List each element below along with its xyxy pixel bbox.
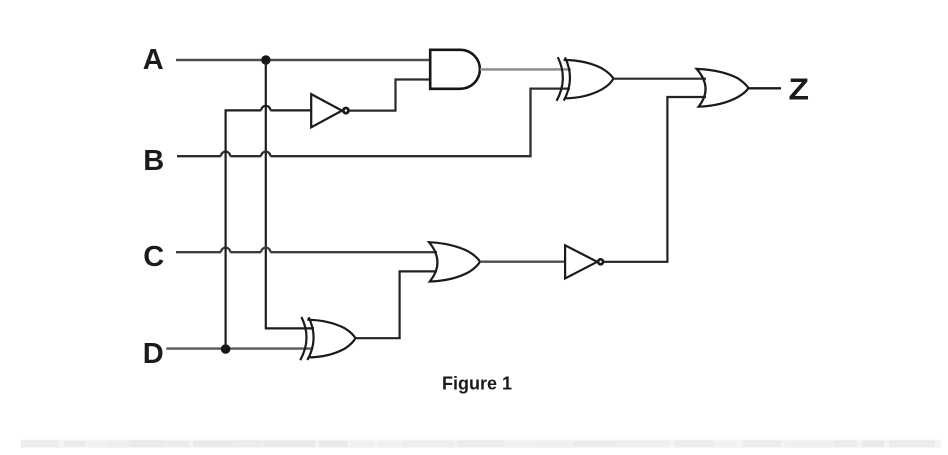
svg-text:Z: Z bbox=[789, 72, 810, 107]
svg-text:C: C bbox=[143, 241, 164, 273]
inverter NOT2 (C level) triangle bbox=[565, 245, 597, 278]
wire hop over x=265.8 on B line bbox=[261, 152, 270, 157]
svg-text:D: D bbox=[143, 338, 164, 370]
wire NOT2 output right then up to OR3 lower input bbox=[604, 97, 706, 262]
XOR gate XOR2 body bbox=[307, 317, 313, 360]
wire XOR2 output up to OR2 lower input bbox=[356, 271, 438, 338]
wire D input to XOR2 lower input bbox=[166, 347, 313, 349]
inverter NOT1 bubble bbox=[343, 108, 348, 113]
wire A-branch vertical to XOR2 upper input bbox=[266, 60, 314, 328]
wire hop over x=225.6 on C line bbox=[221, 248, 230, 253]
bottom faint scan band bbox=[21, 440, 941, 448]
wire hop over x=225.6 on B line bbox=[221, 152, 230, 157]
svg-text:B: B bbox=[143, 145, 164, 177]
node A junction dot bbox=[261, 55, 270, 64]
node D junction dot bbox=[221, 344, 231, 354]
wire XOR1 output to OR3 upper input bbox=[614, 78, 707, 80]
AND gate U1 bbox=[430, 50, 480, 89]
wire NOT1 output up to AND lower input bbox=[349, 80, 431, 111]
wire OR2 output to NOT2 input bbox=[480, 261, 566, 263]
XOR gate XOR2 (bottom) input arc bbox=[300, 317, 306, 360]
wire hop over x=265.8 on NOT1 input line bbox=[261, 106, 270, 111]
svg-text:A: A bbox=[143, 44, 164, 76]
wire AND output to XOR1 bbox=[480, 68, 571, 70]
inverter NOT2 bubble bbox=[598, 259, 603, 264]
inverter NOT1 (top) triangle bbox=[311, 94, 342, 127]
wire OR3 output to label Z bbox=[749, 87, 782, 89]
OR gate OR2 (C level) bbox=[429, 242, 480, 281]
svg-text:Figure 1: Figure 1 bbox=[442, 373, 512, 393]
XOR gate XOR1 body bbox=[564, 57, 570, 100]
wire D-branch vertical up then right to NOT1 input (hops over x=265.8) bbox=[226, 106, 312, 349]
wire hop over x=265.8 on C line bbox=[261, 248, 270, 253]
wire B input, hops over verticals, up to XOR1 lower input bbox=[177, 89, 570, 157]
wire C input to OR2 upper input bbox=[176, 248, 437, 253]
wire A input to AND gate bbox=[176, 59, 431, 61]
OR gate OR3 (output gate) bbox=[697, 69, 749, 107]
XOR gate XOR1 (top) input arc bbox=[557, 57, 563, 101]
